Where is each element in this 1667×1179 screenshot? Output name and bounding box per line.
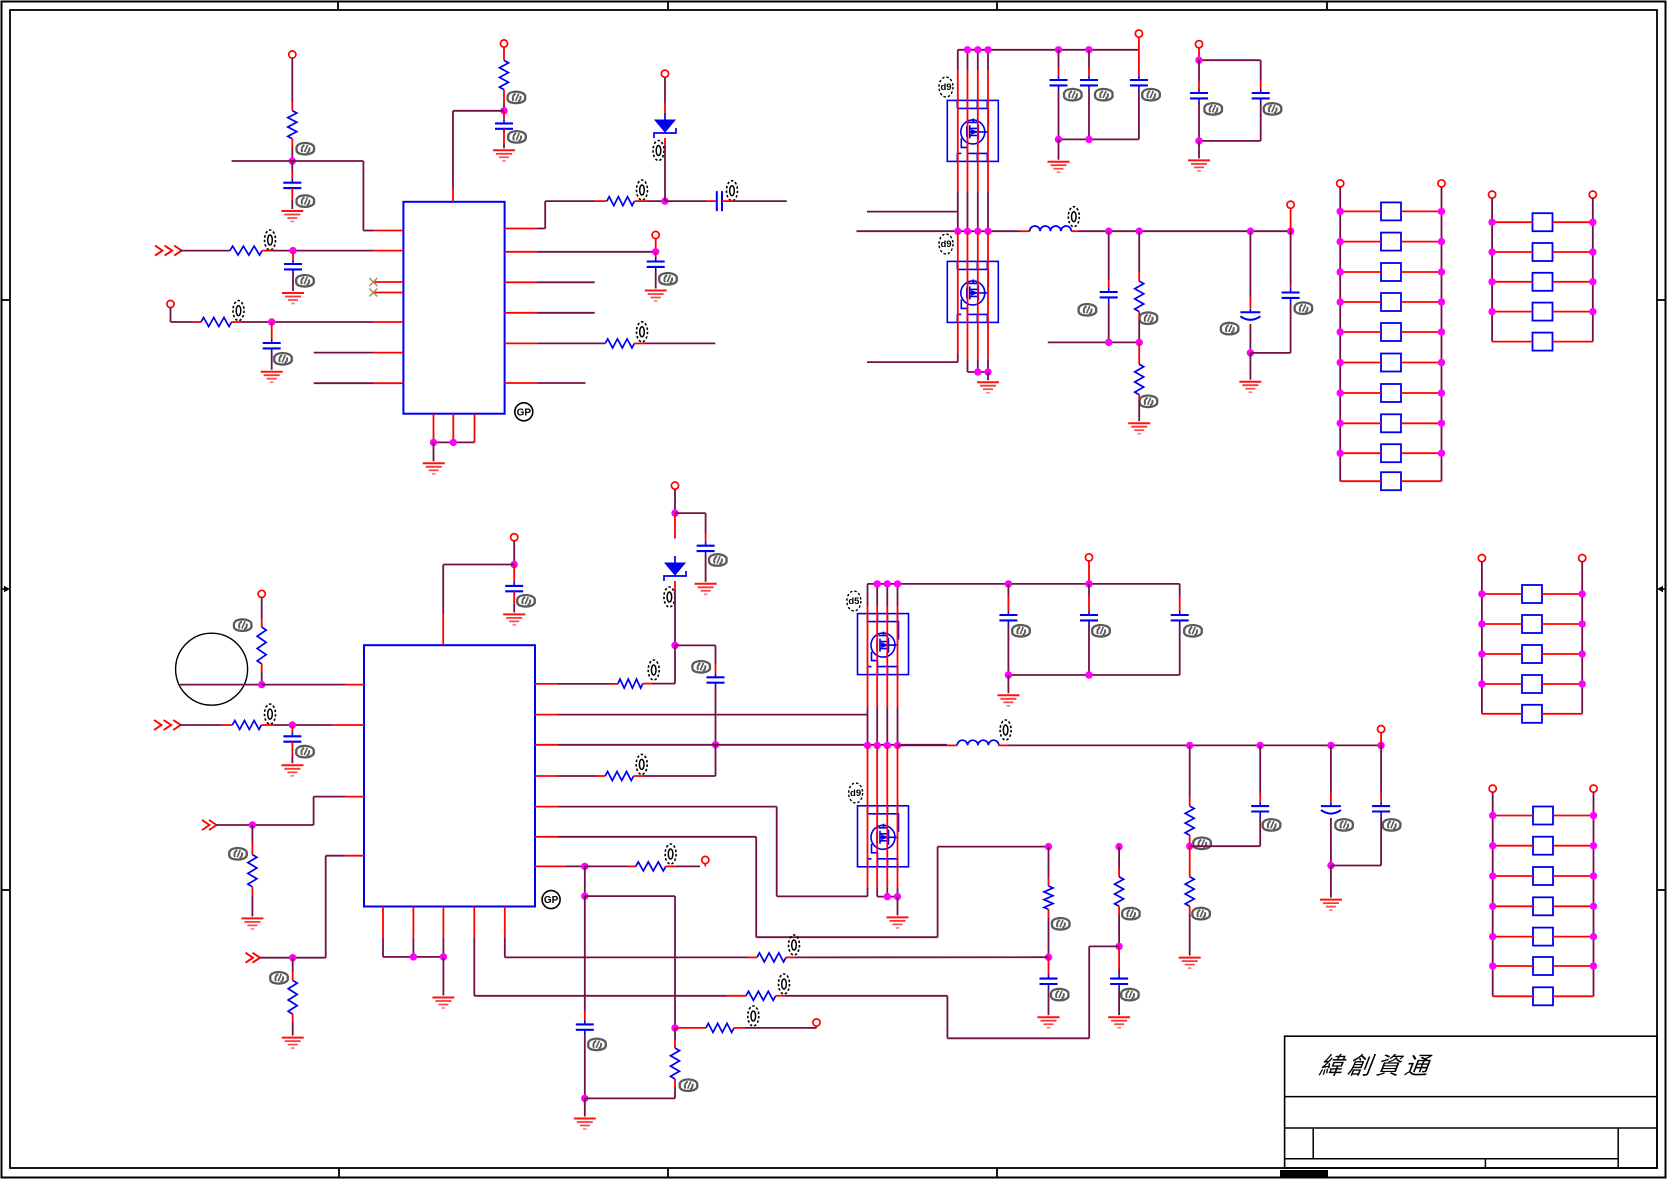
svg-text:GP: GP — [517, 407, 532, 418]
svg-text:d9: d9 — [940, 82, 951, 93]
svg-text:GP: GP — [544, 895, 559, 906]
svg-text:d5: d5 — [848, 596, 860, 607]
svg-text:d9: d9 — [850, 788, 861, 799]
svg-text:緯創資通: 緯創資通 — [1317, 1053, 1435, 1080]
svg-text:d9: d9 — [940, 239, 951, 250]
